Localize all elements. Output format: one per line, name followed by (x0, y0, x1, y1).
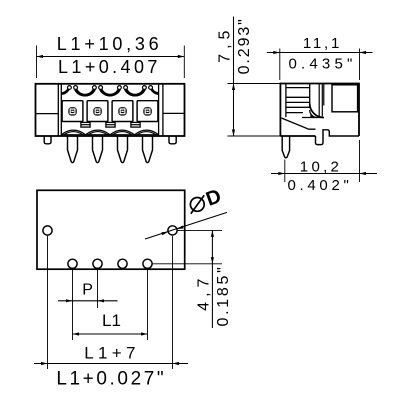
front view pins (68, 136, 153, 163)
svg-text:7,5: 7,5 (217, 26, 234, 63)
text D (203, 185, 224, 211)
front view left flange lines (36, 84, 62, 136)
front view top scallops (61, 86, 158, 96)
svg-text:L1+0.407: L1+0.407 (58, 57, 161, 77)
text 7,5 rotated (217, 26, 234, 63)
text P (82, 282, 93, 299)
dim 7,5 extension lines (228, 84, 282, 137)
text L1+10,36 (57, 34, 163, 54)
bottom view left hole (43, 226, 52, 235)
front view bottom arches (61, 130, 158, 135)
svg-text:L1+7: L1+7 (84, 344, 140, 363)
dim 11,1 extension lines (280, 49, 360, 81)
svg-text:4,7: 4,7 (195, 274, 212, 311)
text 0.293 rotated (236, 17, 253, 74)
front view right peg (169, 136, 176, 144)
dim L1 extension line (147, 268, 149, 340)
dim L1+10,36 extension lines (37, 46, 185, 79)
dim P extension lines (73, 268, 98, 340)
text 10,2 (300, 159, 342, 176)
svg-text:0.293": 0.293" (236, 17, 253, 74)
bottom view rect (37, 190, 185, 269)
text 11,1 (303, 35, 342, 52)
dim L1+10,36 line (37, 55, 185, 58)
diameter symbol (190, 195, 204, 214)
svg-text:0.185": 0.185" (215, 265, 232, 327)
leader D line (145, 212, 227, 239)
side view inner clamp lines (286, 84, 324, 118)
text 4,7 rotated (195, 274, 212, 311)
svg-text:11,1: 11,1 (303, 35, 342, 52)
side view pin (282, 136, 289, 158)
front view right flange lines (159, 84, 185, 136)
dim L1 line (73, 332, 148, 335)
front view screw squares (62, 101, 158, 122)
svg-text:P: P (82, 282, 93, 299)
dim P line (58, 299, 118, 302)
dim L1+7 line (34, 362, 188, 365)
svg-text:0.435": 0.435" (288, 56, 356, 73)
svg-text:L1+0.027": L1+0.027" (56, 368, 166, 389)
dim 11,1 line (267, 51, 373, 54)
dim 7,5 line (232, 17, 235, 137)
text L1+0.407 (58, 57, 161, 77)
bottom view pin holes (68, 259, 152, 268)
svg-text:10,2: 10,2 (300, 159, 342, 176)
text L1+7 (84, 344, 140, 363)
svg-text:L1: L1 (102, 311, 121, 330)
side view bottom diagonal (281, 118, 315, 129)
text 0.435 (288, 56, 356, 73)
dim 10,2 extension lines (285, 140, 360, 182)
front view outer body (36, 84, 185, 136)
side view outer body (280, 84, 359, 145)
dim L1+7 extension lines (48, 236, 173, 369)
side view right box (332, 85, 358, 112)
text L1+0.027 (56, 368, 166, 389)
text L1 (102, 311, 121, 330)
text 0.185 rotated (215, 265, 232, 327)
svg-text:L1+10,36: L1+10,36 (57, 34, 163, 54)
front view left peg (44, 136, 51, 144)
side view wire funnel arcs (302, 103, 324, 117)
svg-text:0.402": 0.402" (287, 177, 352, 194)
dim 10,2 line (271, 172, 377, 175)
front view screws (68, 107, 152, 116)
dim 4,7 line (211, 230, 214, 328)
bottom view right hole (168, 226, 177, 235)
text 0.402 (287, 177, 352, 194)
dim 4,7 extension lines (153, 230, 222, 263)
front view lower tabs (81, 122, 140, 127)
